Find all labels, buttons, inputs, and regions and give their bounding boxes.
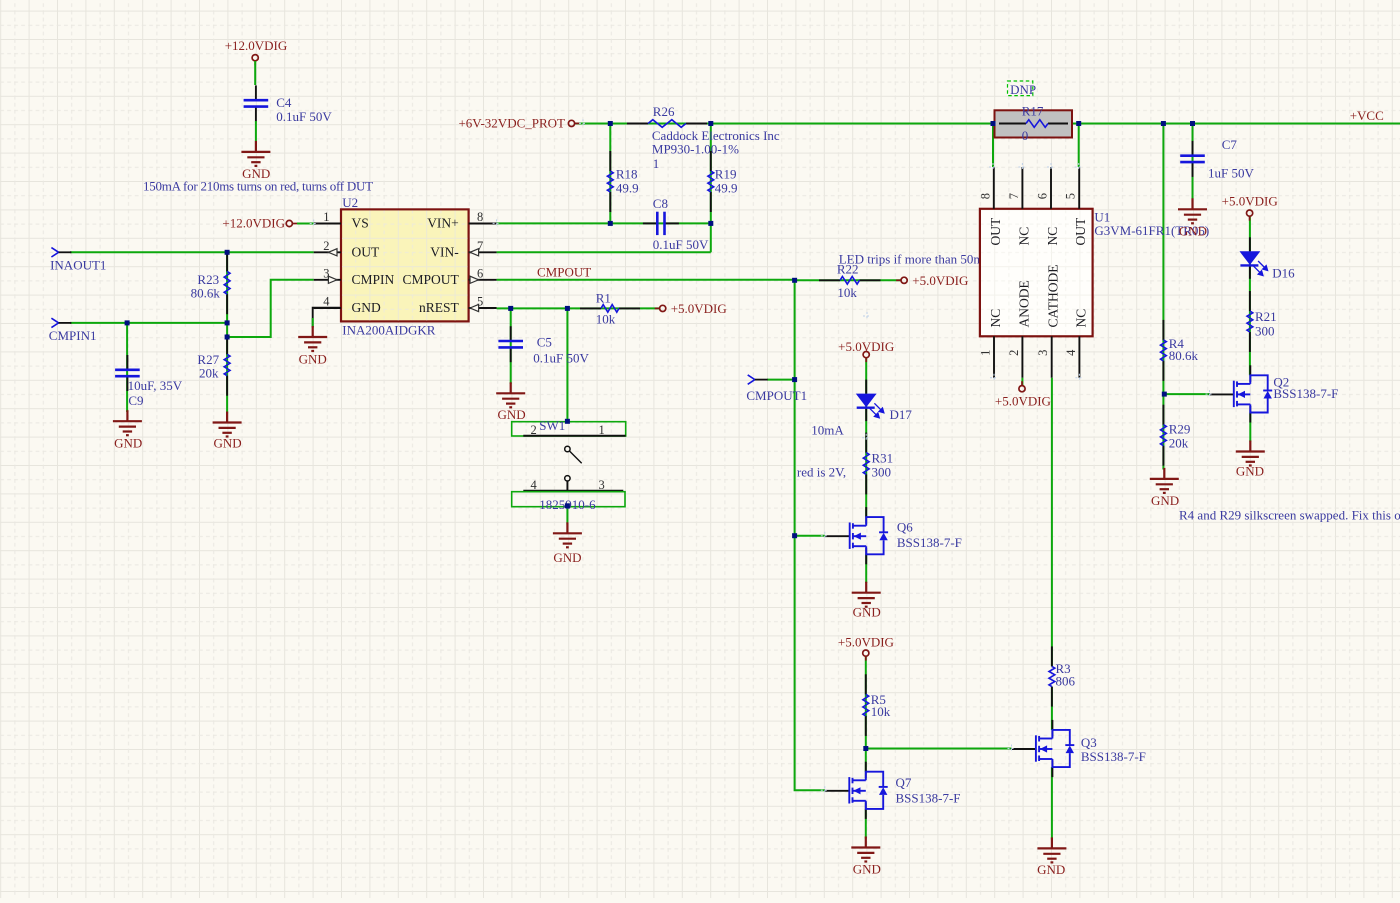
junction 5 bbox=[1161, 121, 1166, 126]
wire R19 branch bbox=[710, 124, 712, 253]
svg-text:BSS138-7-F: BSS138-7-F bbox=[896, 791, 961, 806]
svg-text:10mA: 10mA bbox=[811, 422, 844, 437]
wire C4 to GND bbox=[255, 121, 257, 141]
off-grid marker 3 bbox=[1047, 163, 1055, 171]
wire U1 pin5 drop bbox=[1078, 124, 1080, 168]
wire U1 pin3 to R3 bbox=[1051, 378, 1053, 667]
power port +5.0VDIG (R1) bbox=[655, 301, 727, 316]
junction 17 bbox=[565, 419, 570, 424]
junction 19 bbox=[863, 746, 868, 751]
wire U1 pin8 drop bbox=[992, 124, 994, 168]
off-grid marker 1 bbox=[989, 163, 997, 171]
svg-text:GND: GND bbox=[114, 436, 142, 451]
svg-text:4: 4 bbox=[531, 478, 538, 492]
off-grid marker 6 bbox=[1075, 374, 1083, 382]
capacitor C7 bbox=[1180, 137, 1254, 180]
svg-text:nREST: nREST bbox=[419, 300, 460, 315]
capacitor C9 bbox=[115, 355, 183, 408]
port CMPIN1 bbox=[49, 318, 97, 343]
wire C7 branch bbox=[1192, 124, 1194, 201]
svg-text:R21: R21 bbox=[1255, 309, 1277, 324]
svg-text:NC: NC bbox=[1016, 227, 1031, 246]
off-grid marker 2 bbox=[1018, 163, 1026, 171]
svg-text:10uF, 35V: 10uF, 35V bbox=[128, 378, 183, 393]
svg-text:2: 2 bbox=[323, 239, 329, 253]
svg-text:7: 7 bbox=[477, 239, 483, 253]
wire SW1 top branch bbox=[566, 308, 568, 421]
svg-text:C5: C5 bbox=[537, 334, 552, 349]
resistor R29 bbox=[1161, 405, 1191, 466]
svg-text:CATHODE: CATHODE bbox=[1046, 265, 1061, 328]
wire CMPOUT1 vertical to Q7 bbox=[795, 280, 825, 791]
junction 12 bbox=[225, 335, 230, 340]
wire R5 chain bbox=[865, 656, 867, 771]
off-grid marker 7 bbox=[862, 434, 870, 442]
svg-text:VS: VS bbox=[352, 216, 369, 231]
wire R18 branch bbox=[609, 124, 611, 224]
wire U2 pin4 to GND bbox=[313, 308, 341, 328]
wire Q6 gate bbox=[795, 535, 825, 537]
off-grid marker 11 bbox=[1008, 745, 1016, 753]
svg-text:6: 6 bbox=[477, 266, 483, 280]
svg-text:+5.0VDIG: +5.0VDIG bbox=[1222, 193, 1278, 208]
svg-text:C4: C4 bbox=[276, 95, 292, 110]
note qty 1 bbox=[653, 156, 660, 171]
transistor Q3 BSS138-7-F bbox=[1011, 720, 1146, 777]
svg-text:OUT: OUT bbox=[988, 217, 1003, 245]
svg-text:49.9: 49.9 bbox=[616, 180, 639, 195]
off-grid marker 5 bbox=[990, 374, 998, 382]
resistor R17 (DNP, highlighted) bbox=[995, 104, 1073, 143]
power port +5.0VDIG (U1 pin2) bbox=[995, 381, 1051, 408]
wire R3 to Q3 drain bbox=[1051, 687, 1053, 730]
net label +VCC bbox=[1350, 108, 1384, 123]
transistor Q6 BSS138-7-F bbox=[825, 507, 962, 564]
svg-text:R18: R18 bbox=[616, 167, 638, 182]
junction 11 bbox=[225, 320, 230, 325]
svg-text:R1: R1 bbox=[596, 290, 611, 305]
wire CMPIN1 row bbox=[70, 322, 227, 324]
resistor R22 bbox=[819, 262, 881, 300]
wire SW1 to GND bbox=[566, 506, 568, 525]
ground SW1 bbox=[553, 522, 582, 565]
svg-text:GND: GND bbox=[299, 352, 327, 367]
net label CMPOUT bbox=[537, 265, 591, 280]
junction 7 bbox=[608, 221, 613, 226]
svg-text:+12.0VDIG: +12.0VDIG bbox=[222, 216, 285, 231]
resistor R1 bbox=[580, 290, 640, 326]
svg-text:NC: NC bbox=[1073, 309, 1088, 328]
svg-text:GND: GND bbox=[1037, 862, 1065, 877]
svg-text:BSS138-7-F: BSS138-7-F bbox=[1273, 386, 1338, 401]
ground R29 bbox=[1150, 468, 1179, 508]
note Caddock bbox=[652, 128, 780, 143]
resistor R5 bbox=[863, 674, 891, 736]
switch SW1 1825910-6 bbox=[512, 418, 626, 512]
junction 20 bbox=[1162, 392, 1167, 397]
svg-text:CMPOUT: CMPOUT bbox=[403, 272, 460, 287]
svg-text:R22: R22 bbox=[837, 262, 859, 277]
DNP flag bbox=[1008, 81, 1037, 97]
svg-text:10k: 10k bbox=[837, 285, 857, 300]
junction 4 bbox=[1076, 121, 1081, 126]
svg-text:R29: R29 bbox=[1169, 422, 1191, 437]
ground Q3 bbox=[1037, 837, 1066, 877]
wire net +VCC main rail bbox=[576, 123, 1400, 125]
junction 2 bbox=[708, 121, 713, 126]
svg-text:+VCC: +VCC bbox=[1350, 108, 1384, 123]
junction 14 bbox=[565, 306, 570, 311]
power port +6V-32VDC_PROT bbox=[458, 116, 579, 131]
svg-text:GND: GND bbox=[1236, 464, 1264, 479]
note 150mA bbox=[143, 178, 373, 193]
wire D16 chain bbox=[1249, 216, 1251, 375]
svg-text:5: 5 bbox=[1064, 193, 1078, 199]
power port +12.0VDIG (U2 pin1) bbox=[222, 216, 297, 231]
svg-text:NC: NC bbox=[988, 309, 1003, 328]
off-grid marker 10 bbox=[1206, 390, 1214, 398]
transistor Q7 BSS138-7-F bbox=[824, 762, 960, 819]
svg-text:CMPIN1: CMPIN1 bbox=[49, 328, 97, 343]
svg-text:1uF 50V: 1uF 50V bbox=[1208, 166, 1254, 181]
op-amp U2 INA200AIDGKR bbox=[314, 195, 497, 337]
svg-text:+5.0VDIG: +5.0VDIG bbox=[838, 339, 894, 354]
power port +5.0VDIG (D16) bbox=[1222, 193, 1278, 220]
svg-text:ANODE: ANODE bbox=[1016, 280, 1031, 327]
svg-text:2: 2 bbox=[531, 423, 537, 437]
resistor R4 bbox=[1161, 320, 1199, 381]
junction 3 bbox=[991, 121, 996, 126]
wire U1 pin2 to +5.0VDIG bbox=[1021, 378, 1023, 386]
wire INAOUT1 to U2 pin2 bbox=[70, 251, 314, 253]
svg-text:LED trips if more than 50mA: LED trips if more than 50mA bbox=[839, 252, 994, 267]
svg-text:C7: C7 bbox=[1222, 137, 1238, 152]
svg-text:10k: 10k bbox=[871, 704, 891, 719]
svg-text:Q7: Q7 bbox=[896, 775, 912, 790]
junction 10 bbox=[125, 320, 130, 325]
svg-text:7: 7 bbox=[1007, 193, 1021, 199]
svg-text:VIN+: VIN+ bbox=[427, 216, 459, 231]
svg-text:NC: NC bbox=[1045, 227, 1060, 246]
port INAOUT1 bbox=[50, 248, 106, 273]
svg-text:8: 8 bbox=[477, 210, 483, 224]
power port +5.0VDIG (R5) bbox=[838, 634, 894, 660]
wire +12V to C4 bbox=[254, 61, 256, 85]
svg-text:GND: GND bbox=[352, 300, 381, 315]
svg-text:80.6k: 80.6k bbox=[1169, 348, 1199, 363]
svg-text:GND: GND bbox=[1179, 224, 1207, 239]
off-grid marker 14 bbox=[863, 312, 871, 320]
port CMPOUT1 bbox=[746, 375, 807, 403]
svg-text:CMPOUT1: CMPOUT1 bbox=[746, 388, 807, 403]
svg-text:VIN-: VIN- bbox=[430, 244, 459, 259]
wire Q2 source bbox=[1249, 413, 1251, 442]
wire R23 vertical bbox=[226, 252, 228, 337]
svg-text:+5.0VDIG: +5.0VDIG bbox=[838, 634, 894, 649]
off-grid marker 15 bbox=[579, 119, 587, 127]
svg-text:+5.0VDIG: +5.0VDIG bbox=[671, 301, 727, 316]
ground Q6 bbox=[852, 582, 881, 620]
svg-text:BSS138-7-F: BSS138-7-F bbox=[1081, 749, 1146, 764]
svg-text:1: 1 bbox=[979, 350, 993, 356]
svg-text:R19: R19 bbox=[715, 167, 737, 182]
svg-text:SW1: SW1 bbox=[539, 418, 565, 433]
ground R27 bbox=[213, 412, 242, 451]
svg-text:806: 806 bbox=[1056, 674, 1076, 689]
capacitor C5 bbox=[498, 326, 589, 365]
junction 21 bbox=[792, 533, 797, 538]
off-grid marker 8 bbox=[821, 532, 829, 540]
svg-text:8: 8 bbox=[978, 193, 992, 199]
svg-text:U2: U2 bbox=[342, 195, 358, 210]
svg-text:R26: R26 bbox=[653, 104, 675, 119]
svg-text:6: 6 bbox=[1036, 193, 1050, 199]
svg-text:Q6: Q6 bbox=[897, 520, 913, 535]
resistor R27 bbox=[197, 334, 230, 395]
svg-text:1: 1 bbox=[599, 423, 605, 437]
svg-text:1: 1 bbox=[323, 210, 329, 224]
svg-text:red is 2V,: red is 2V, bbox=[797, 465, 846, 480]
svg-text:INA200AIDGKR: INA200AIDGKR bbox=[342, 322, 435, 337]
resistor R23 bbox=[191, 251, 230, 314]
svg-text:+5.0VDIG: +5.0VDIG bbox=[995, 393, 1051, 408]
wire CMPOUT to R22 bbox=[795, 279, 901, 281]
LED D17 bbox=[856, 380, 913, 422]
off-grid marker 12 bbox=[310, 220, 318, 228]
svg-text:300: 300 bbox=[1255, 324, 1275, 339]
svg-text:10k: 10k bbox=[596, 311, 616, 326]
wire C5 branch bbox=[510, 308, 512, 384]
wire C9 branch bbox=[126, 323, 128, 412]
svg-text:MP930-1.00-1%: MP930-1.00-1% bbox=[652, 142, 739, 157]
power port +5.0VDIG (D17) bbox=[838, 339, 894, 362]
resistor R3 bbox=[1049, 646, 1076, 706]
svg-text:150mA for 210ms turns on red,: 150mA for 210ms turns on red, turns off … bbox=[143, 178, 373, 193]
svg-text:+5.0VDIG: +5.0VDIG bbox=[912, 273, 968, 288]
wire nREST row bbox=[497, 307, 660, 309]
svg-text:C9: C9 bbox=[128, 393, 143, 408]
svg-text:GND: GND bbox=[553, 550, 581, 565]
ground C9 bbox=[113, 410, 142, 451]
wire U2 pin8 to C8 row bbox=[497, 222, 711, 224]
svg-text:CMPIN: CMPIN bbox=[352, 272, 395, 287]
svg-text:20k: 20k bbox=[1169, 436, 1189, 451]
svg-text:49.9: 49.9 bbox=[715, 180, 738, 195]
svg-text:OUT: OUT bbox=[1073, 217, 1088, 245]
svg-text:+6V-32VDC_PROT: +6V-32VDC_PROT bbox=[458, 116, 565, 131]
svg-text:4: 4 bbox=[323, 295, 330, 309]
svg-text:5: 5 bbox=[477, 295, 483, 309]
wire Q2 gate bbox=[1164, 393, 1209, 395]
power port +12.0VDIG (C4) bbox=[225, 38, 288, 65]
power port +5.0VDIG (R22) bbox=[896, 273, 968, 288]
junction 1 bbox=[608, 121, 613, 126]
wire Q6 source bbox=[865, 554, 867, 583]
off-grid marker 9 bbox=[821, 786, 829, 794]
svg-text:CMPOUT: CMPOUT bbox=[537, 265, 591, 280]
capacitor C8 bbox=[643, 196, 709, 252]
svg-text:3: 3 bbox=[599, 478, 605, 492]
note red is 2V bbox=[797, 465, 846, 480]
svg-text:GND: GND bbox=[498, 407, 526, 422]
off-grid marker 4 bbox=[1075, 163, 1083, 171]
svg-text:INAOUT1: INAOUT1 bbox=[50, 257, 106, 272]
svg-text:BSS138-7-F: BSS138-7-F bbox=[897, 535, 962, 550]
ground Q2 bbox=[1236, 441, 1265, 479]
svg-text:3: 3 bbox=[323, 266, 329, 280]
svg-text:4: 4 bbox=[1064, 349, 1078, 356]
svg-text:GND: GND bbox=[1151, 493, 1179, 508]
ground C4 bbox=[241, 141, 270, 181]
svg-text:DNP: DNP bbox=[1010, 82, 1036, 97]
svg-text:D16: D16 bbox=[1272, 266, 1295, 281]
note R4 R29 silkscreen bbox=[1179, 508, 1400, 523]
wire D17 chain bbox=[865, 358, 867, 517]
wire Q7 source bbox=[865, 809, 867, 839]
svg-text:300: 300 bbox=[872, 464, 892, 479]
transistor Q2 BSS138-7-F bbox=[1209, 365, 1339, 422]
note MP930 bbox=[652, 142, 739, 157]
wire CMPOUT1 stub bbox=[767, 379, 795, 381]
svg-text:R4 and R29 silkscreen swapped.: R4 and R29 silkscreen swapped. Fix this … bbox=[1179, 508, 1400, 523]
svg-text:GND: GND bbox=[853, 605, 881, 620]
svg-text:0.1uF 50V: 0.1uF 50V bbox=[653, 237, 709, 252]
capacitor C4 bbox=[244, 85, 333, 123]
resistor R31 bbox=[863, 433, 893, 495]
svg-text:20k: 20k bbox=[199, 366, 219, 381]
svg-text:R17: R17 bbox=[1022, 104, 1044, 119]
svg-text:0.1uF 50V: 0.1uF 50V bbox=[533, 350, 589, 365]
junction 6 bbox=[1190, 121, 1195, 126]
svg-text:D17: D17 bbox=[890, 407, 913, 422]
wire R27 branch bbox=[226, 337, 228, 414]
ground C7 bbox=[1178, 198, 1207, 238]
junction 16 bbox=[792, 377, 797, 382]
svg-text:+12.0VDIG: +12.0VDIG bbox=[225, 38, 288, 53]
svg-text:Q3: Q3 bbox=[1081, 735, 1097, 750]
junction 18 bbox=[565, 503, 570, 508]
junction 13 bbox=[508, 306, 513, 311]
svg-text:GND: GND bbox=[214, 436, 242, 451]
relay U1 G3VM-61FR1 bbox=[978, 167, 1209, 378]
wire U2 pin7 VIN- row bbox=[497, 251, 711, 253]
svg-text:0: 0 bbox=[1022, 128, 1028, 143]
ground Q7 bbox=[851, 837, 881, 877]
svg-text:OUT: OUT bbox=[352, 244, 380, 259]
ground C5 bbox=[496, 382, 525, 422]
wire CMPOUT row bbox=[497, 279, 795, 281]
svg-text:2: 2 bbox=[1007, 350, 1021, 356]
junction 8 bbox=[708, 221, 713, 226]
off-grid marker 13 bbox=[493, 219, 501, 227]
svg-text:1: 1 bbox=[653, 156, 660, 171]
wire Q3 source to GND bbox=[1051, 767, 1053, 839]
LED D16 bbox=[1240, 237, 1296, 280]
svg-text:GND: GND bbox=[853, 862, 881, 877]
resistor R18 bbox=[607, 151, 638, 212]
junction 15 bbox=[792, 278, 797, 283]
wire R5 to Q3 gate bbox=[866, 748, 1012, 750]
svg-text:0.1uF 50V: 0.1uF 50V bbox=[276, 109, 332, 124]
ground U2 pin4 bbox=[298, 326, 327, 367]
svg-text:80.6k: 80.6k bbox=[191, 285, 221, 300]
wire R4 R29 branch bbox=[1162, 124, 1164, 470]
wire CMPIN jog to U2 pin3 bbox=[227, 280, 314, 337]
resistor R21 bbox=[1247, 291, 1277, 352]
note LED trips bbox=[839, 252, 994, 267]
svg-text:3: 3 bbox=[1036, 350, 1050, 356]
svg-text:C8: C8 bbox=[653, 196, 668, 211]
wire +12V pin1 bbox=[297, 223, 314, 225]
junction 9 bbox=[225, 250, 230, 255]
resistor R26 bbox=[627, 104, 707, 127]
note 10mA bbox=[811, 422, 844, 437]
resistor R19 bbox=[708, 151, 738, 212]
